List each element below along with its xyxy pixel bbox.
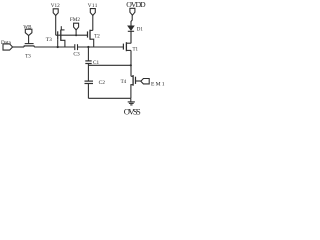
wire C1 node branch xyxy=(88,64,130,66)
junction dot storage rail xyxy=(87,46,89,48)
junction dot FM2 xyxy=(75,34,77,36)
svg-text:T2: T2 xyxy=(94,34,100,39)
junction dot branch right xyxy=(130,64,132,66)
ground OVSS xyxy=(130,98,132,102)
junction dot at T3b gate tie xyxy=(57,46,59,48)
wire Data to T3 switch xyxy=(13,46,25,48)
capacitor C1 xyxy=(85,60,91,62)
wire OVDD stem xyxy=(131,15,132,26)
wire bottom to ground xyxy=(88,97,130,99)
svg-text:V12: V12 xyxy=(51,3,60,9)
terminal V11 xyxy=(90,9,95,16)
capacitor C3 xyxy=(74,44,76,50)
svg-text:V11: V11 xyxy=(88,3,98,9)
svg-text:C3: C3 xyxy=(73,51,80,57)
svg-text:D1: D1 xyxy=(137,28,144,33)
transistor T1 xyxy=(122,44,124,50)
svg-text:FM2: FM2 xyxy=(70,17,80,23)
svg-text:T1: T1 xyxy=(133,47,139,52)
wire data line (C3 to T1 gate) xyxy=(78,46,124,48)
terminal OVDD xyxy=(130,8,135,15)
diode D1 xyxy=(128,26,134,31)
wire gate extension down xyxy=(57,39,59,47)
wire data line (T3 to C3) xyxy=(34,46,75,48)
transistor T3 (switch, in data line) xyxy=(23,46,25,47)
wire V11 stem xyxy=(92,15,94,30)
wire storage rail bottom xyxy=(87,84,89,99)
transistor T2 xyxy=(87,31,89,37)
svg-text:OVDD: OVDD xyxy=(126,0,146,9)
wire T1 source rail down to T4 xyxy=(130,31,132,76)
terminal WB xyxy=(25,29,32,35)
wire storage rail mid xyxy=(87,64,89,82)
transistor T3 (left middle) xyxy=(57,31,59,39)
wire gate line V12 to T2 gate xyxy=(56,34,88,36)
transistor T4 xyxy=(131,75,133,77)
port Data xyxy=(3,44,13,50)
svg-text:T3: T3 xyxy=(46,37,52,43)
terminal V12 xyxy=(53,9,58,16)
wire storage rail top xyxy=(87,47,89,61)
wire V12 stem xyxy=(55,16,57,36)
wire D1 to T1 xyxy=(130,31,132,43)
svg-text:OVSS: OVSS xyxy=(124,107,141,117)
svg-text:T4: T4 xyxy=(121,80,127,85)
capacitor C2 xyxy=(85,80,94,82)
terminal FM2 xyxy=(74,23,79,30)
svg-text:C2: C2 xyxy=(99,80,106,86)
svg-text:EM1: EM1 xyxy=(151,82,165,88)
svg-text:WB: WB xyxy=(23,25,32,30)
wire FM2 stem xyxy=(75,30,77,35)
svg-text:T3: T3 xyxy=(25,54,31,59)
port EM1 xyxy=(141,79,149,84)
